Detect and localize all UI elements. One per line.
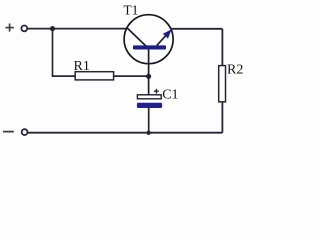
transistor T1 circle — [124, 15, 173, 64]
transistor T1 emitter lead — [157, 33, 169, 46]
wire: bottom rail (input - to R2) — [28, 132, 222, 134]
svg-text:T1: T1 — [123, 3, 138, 18]
transistor T1 base lead down — [148, 49, 150, 94]
junction: top rail to R1 branch — [50, 26, 55, 31]
wire: into R1 left lead — [52, 75, 76, 77]
svg-text:R2: R2 — [227, 63, 243, 78]
svg-text:R1: R1 — [74, 59, 90, 74]
resistor R2 — [219, 66, 226, 102]
junction: R1 / T1 base / C1 node — [146, 74, 151, 79]
wire: vertical drop to R1 — [52, 29, 54, 77]
input terminal (top left, open circle) — [21, 26, 27, 32]
wire: top rail right (T1 emitter to R2) — [171, 28, 223, 30]
wire: top rail left (input + to T1 collector) — [28, 28, 127, 30]
junction: C1 to bottom rail — [146, 131, 150, 135]
wire: right vertical upper (to R2 top) — [221, 29, 223, 66]
capacitor C1 bottom plate — [137, 103, 162, 108]
wire: C1 bottom lead to bottom rail — [148, 108, 150, 133]
terminal polarity mark - (negative input) — [3, 131, 14, 133]
wire: R1 right lead to base node — [114, 75, 149, 77]
resistor R1 — [75, 72, 113, 80]
wire: right vertical lower (R2 bottom to bottom rail) — [221, 102, 223, 133]
terminal polarity mark + (positive input) — [6, 24, 14, 32]
transistor T1 base bar — [133, 45, 166, 49]
transistor T1 emitter arrowhead — [163, 29, 172, 38]
transistor T1 collector lead — [127, 28, 146, 46]
input terminal (bottom left, open circle) — [22, 129, 28, 135]
capacitor C1 top plate — [137, 95, 161, 99]
svg-text:C1: C1 — [162, 88, 178, 103]
capacitor C1 polarity mark + — [154, 89, 159, 94]
